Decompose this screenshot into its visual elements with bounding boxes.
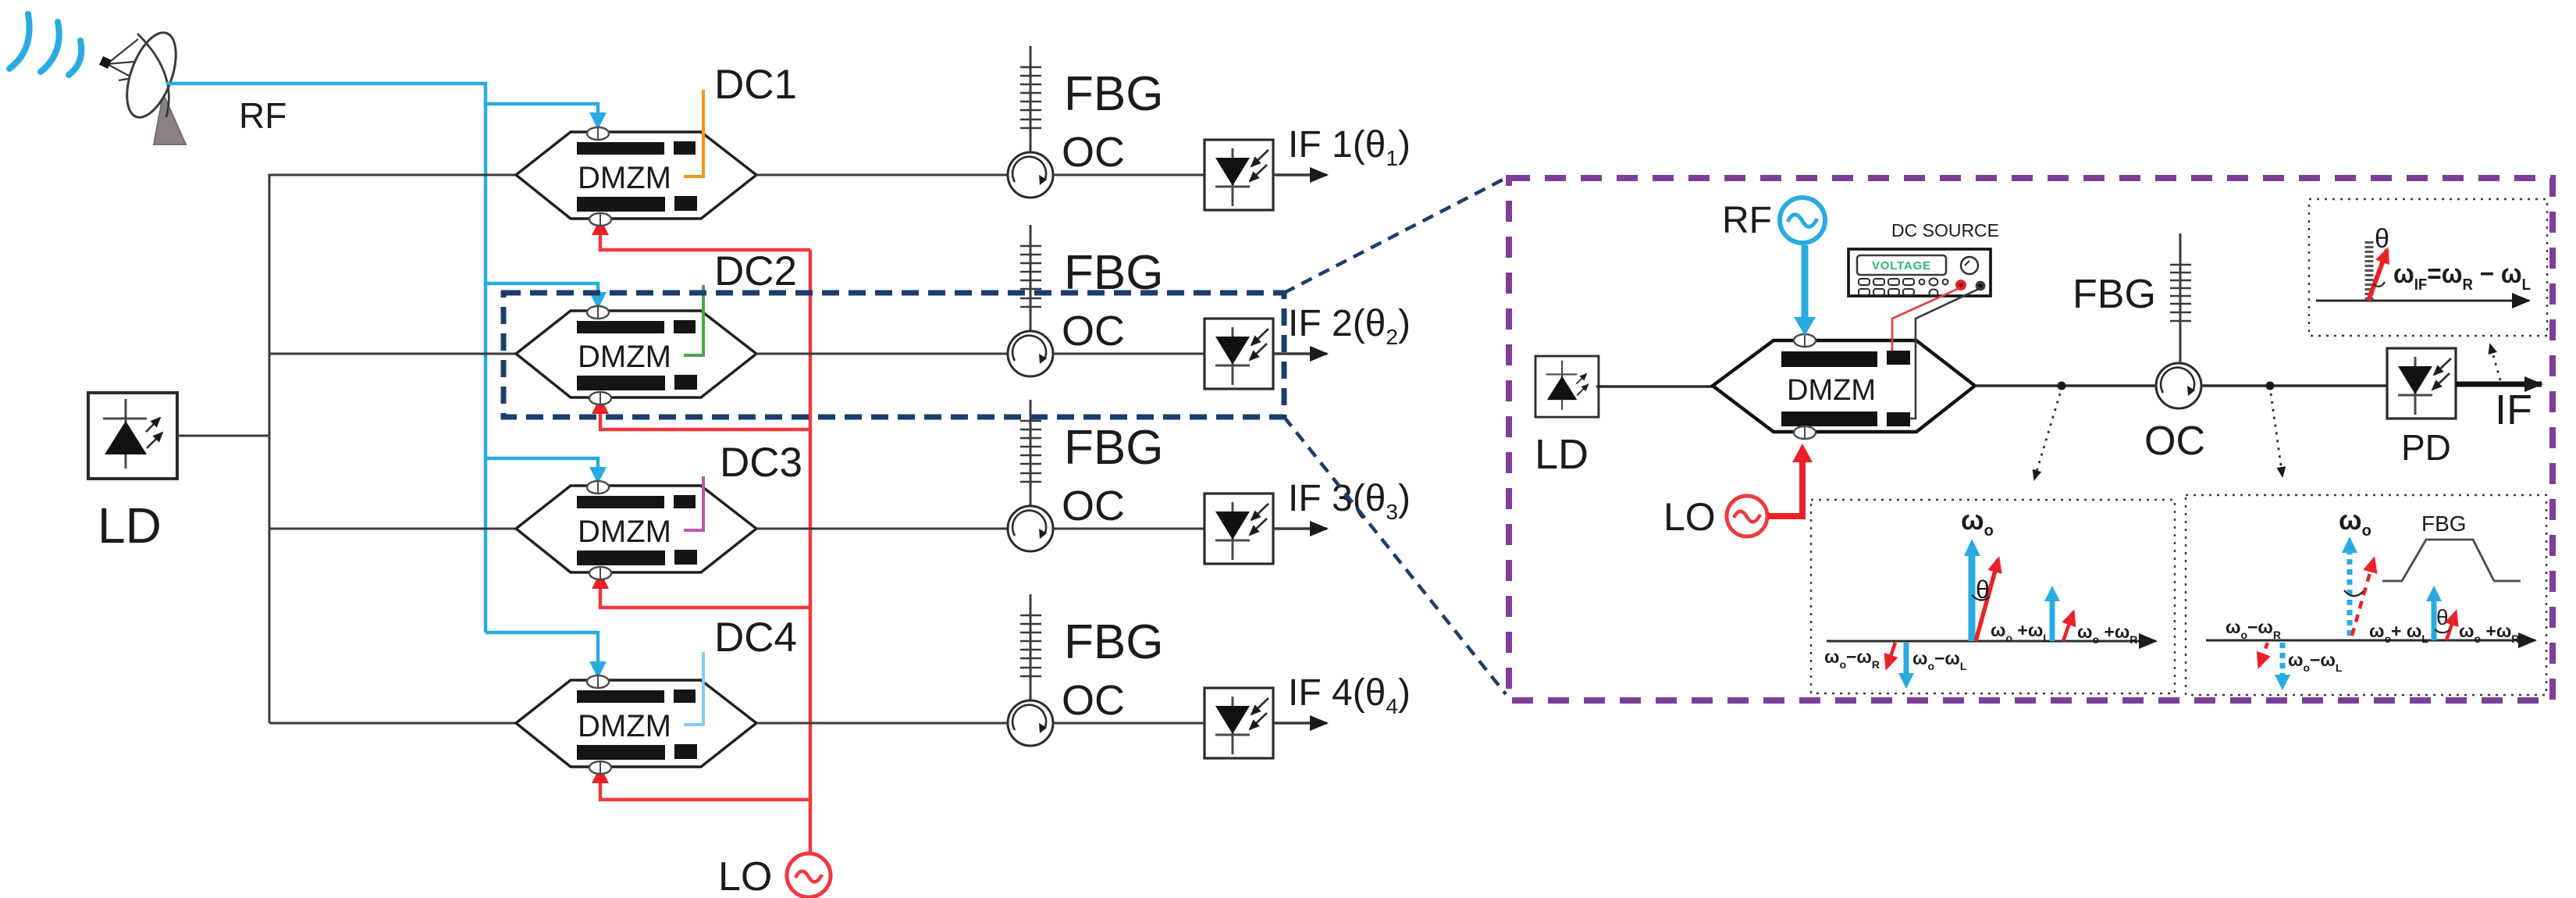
modulator DMZM (zoom) [1713, 334, 1975, 439]
circulator OC (zoom) [2156, 363, 2201, 408]
wire OC1 to PD1 [1053, 174, 1204, 176]
inset A arc [1972, 595, 1990, 600]
wire RF blue bus [166, 84, 486, 633]
node junction 2 [2266, 382, 2275, 390]
inset C box [2309, 199, 2547, 336]
wire IF4 output [1273, 722, 1327, 724]
wire OC2 to PD2 [1053, 353, 1204, 355]
node junction 1 [2058, 382, 2066, 390]
wire RF branch 4 [486, 633, 598, 661]
svg-text:θ: θ [2375, 224, 2389, 254]
antenna base [154, 94, 186, 144]
grating FBG (zoom) [2170, 233, 2191, 364]
wire IF2 output [1273, 352, 1327, 355]
channel 4 [516, 594, 1411, 774]
wire LD branch 3 [269, 528, 516, 530]
zoom box navy dashed [503, 293, 1284, 417]
wire OC to PD (zoom) [2201, 384, 2389, 387]
inset C axis [2316, 300, 2529, 302]
dotted pointer to inset C [2490, 344, 2500, 380]
photodiode PD1 [1204, 140, 1273, 210]
wire DMZM2 to OC2 [756, 353, 1009, 355]
svg-text:IF 4(θ4): IF 4(θ4) [1288, 672, 1411, 718]
antenna dish [99, 27, 186, 124]
svg-text:FBG: FBG [2073, 272, 2156, 317]
svg-text:LD: LD [98, 497, 162, 554]
inset A lower blue arrow [1904, 643, 1909, 673]
inset spectrum B box [2186, 495, 2546, 695]
wire RF branch 1 [486, 104, 598, 112]
svg-text:DC3: DC3 [720, 440, 802, 486]
photodiode PD2 [1204, 319, 1273, 389]
svg-text:RF: RF [1722, 200, 1772, 241]
inset B sideband +L red [2446, 612, 2456, 640]
wire LO branch 4 [600, 783, 810, 800]
svg-text:IF 2(θ2): IF 2(θ2) [1288, 303, 1411, 349]
svg-text:IF 1(θ1): IF 1(θ1) [1288, 124, 1411, 170]
svg-text:ωo−ωR: ωo−ωR [1824, 647, 1880, 671]
svg-text:DC SOURCE: DC SOURCE [1891, 220, 1999, 241]
svg-text:OC: OC [1062, 308, 1125, 355]
inset B arc [2344, 590, 2364, 596]
modulator DMZM3 [516, 481, 756, 579]
channel 1 [486, 46, 1411, 226]
wire LD bus [269, 175, 516, 723]
svg-text:OC: OC [1062, 129, 1125, 176]
modulator DMZM2 [516, 306, 756, 404]
zoom guide line top [1284, 178, 1506, 293]
laser diode LD [88, 393, 177, 479]
photodiode PD3 [1204, 494, 1273, 564]
svg-text:ωo−ωL: ωo−ωL [1912, 648, 1967, 672]
circulator OC1 [1008, 152, 1053, 198]
inset B lower dashed red [2259, 643, 2268, 666]
wire LO branch 3 [600, 589, 810, 608]
svg-text:RF: RF [239, 95, 286, 136]
wire IF3 output [1273, 527, 1327, 529]
svg-text:FBG: FBG [1064, 615, 1163, 669]
svg-text:θ: θ [2436, 605, 2449, 629]
svg-text:OC: OC [1062, 483, 1125, 529]
inset C arc [2373, 282, 2385, 287]
channel 3 [516, 400, 1411, 579]
svg-text:LD: LD [1535, 431, 1589, 478]
svg-text:OC: OC [1062, 677, 1125, 724]
svg-text:LO: LO [718, 854, 772, 898]
wire DC black probe [1909, 289, 1979, 419]
svg-text:ωo−ωL: ωo−ωL [2288, 650, 2343, 674]
DC bias line DC3 [684, 476, 703, 530]
grating FBG4 [1020, 594, 1041, 701]
wire RF arrow (zoom) [1802, 245, 1809, 319]
svg-text:DC4: DC4 [714, 615, 797, 661]
wire LD branch 2 [269, 353, 516, 355]
wire DMZM1 to OC1 [756, 174, 1009, 176]
grating FBG3 [1020, 400, 1041, 507]
wire LD branch 1 to DMZM1 [486, 174, 516, 176]
inset A tilted red arrow [1976, 559, 1998, 641]
photodiode PD4 [1204, 688, 1273, 758]
inset A carrier arrow [1969, 556, 1976, 641]
oscillator LO (zoom) [1727, 496, 1767, 536]
inset C hatched bar [2365, 239, 2374, 300]
inset A sideband +L blue [2050, 601, 2055, 641]
svg-text:FBG: FBG [1064, 67, 1163, 121]
RF waves [9, 14, 81, 75]
svg-text:PD: PD [2401, 427, 2451, 468]
wire OC3 to PD3 [1053, 528, 1204, 530]
svg-text:ωo−ωR: ωo−ωR [2226, 617, 2281, 641]
svg-text:DC2: DC2 [714, 248, 797, 294]
inset spectrum A box [1811, 500, 2175, 693]
svg-text:ωo: ωo [1961, 505, 1994, 540]
oscillator RF (zoom) [1780, 198, 1825, 243]
wire IF output (zoom) [2456, 382, 2542, 387]
svg-text:DMZM: DMZM [1787, 374, 1876, 407]
DC bias line DC2 [684, 285, 703, 355]
circulator OC3 [1008, 506, 1053, 551]
wire RF branch 2 [486, 283, 598, 292]
wire DMZM out (zoom) [1975, 384, 2158, 387]
svg-text:LO: LO [1663, 495, 1716, 539]
wire LD feed [177, 435, 269, 437]
inset C red arrow [2368, 250, 2387, 301]
inset B arc2 [2435, 629, 2450, 633]
wire DMZM4 to OC4 [756, 722, 1009, 725]
laser diode LD (zoom) [1535, 356, 1599, 417]
inset B dashed carrier blue [2347, 553, 2353, 636]
wire LO branch 1 [600, 235, 810, 250]
wire DC red probe [1892, 288, 1959, 351]
DC bias line DC1 [684, 90, 703, 176]
photodiode PD (zoom) [2387, 348, 2456, 419]
dotted pointer to inset A [2034, 394, 2060, 479]
wire RF branch 3 [486, 458, 598, 467]
inset A sideband +L red [2063, 612, 2073, 641]
oscillator LO [787, 853, 831, 897]
svg-text:FBG: FBG [1064, 421, 1163, 475]
inset B FBG response [2382, 540, 2521, 581]
wire LO branch 2 [600, 414, 810, 429]
modulator DMZM1 [516, 127, 756, 226]
inset B dashed red arrow [2352, 559, 2374, 636]
svg-text:OC: OC [2144, 419, 2205, 464]
inset B lower dashed blue [2280, 643, 2286, 675]
svg-text:FBG: FBG [2421, 511, 2467, 536]
modulator DMZM4 [516, 675, 756, 774]
instrument DC SOURCE [1848, 249, 1991, 297]
svg-text:ωo: ωo [2339, 505, 2371, 540]
grating FBG1 [1020, 46, 1041, 153]
wire DMZM3 to OC3 [756, 528, 1009, 530]
wire LD branch 4 [269, 722, 516, 725]
svg-text:ωIF=ωR − ωL: ωIF=ωR − ωL [2393, 259, 2531, 294]
wire LD to DMZM (zoom) [1596, 385, 1713, 387]
svg-text:DC1: DC1 [714, 62, 797, 108]
wire LO arrow (zoom) [1768, 461, 1802, 516]
DC bias line DC4 [684, 652, 703, 725]
zoom panel purple dashed box [1509, 178, 2553, 700]
grating FBG2 [1020, 225, 1041, 332]
svg-text:IF: IF [2495, 387, 2532, 433]
zoom guide line bottom [1284, 417, 1506, 694]
wire IF1 output [1273, 173, 1327, 176]
inset B sideband +L blue [2432, 601, 2437, 640]
inset A lower red arrow [1887, 643, 1895, 668]
inset B axis [2206, 640, 2535, 642]
channel 2 [516, 225, 1411, 404]
circulator OC2 [1008, 331, 1053, 376]
wire LO red bus [809, 250, 813, 855]
circulator OC4 [1008, 700, 1053, 746]
inset A axis [1827, 640, 2156, 643]
dotted pointer to inset B [2271, 394, 2282, 476]
svg-text:VOLTAGE: VOLTAGE [1872, 259, 1931, 273]
wire OC4 to PD4 [1053, 722, 1204, 725]
